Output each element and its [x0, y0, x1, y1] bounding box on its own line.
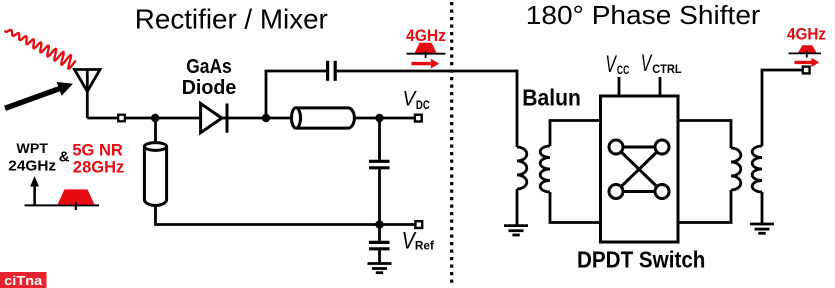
DPDT switch box U1: [601, 96, 679, 242]
input port: [118, 115, 125, 122]
svg-text:WPT: WPT: [16, 141, 48, 157]
wire antenna to input port: [87, 117, 118, 120]
svg-text:CTRL: CTRL: [652, 62, 681, 76]
balun1 secondary coil: [540, 146, 550, 192]
wire diode to node B: [227, 117, 292, 120]
svg-text:ciTna: ciTna: [4, 273, 43, 288]
wire node B up to RF rail: [265, 71, 268, 118]
svg-text:Rectifier / Mixer: Rectifier / Mixer: [135, 4, 328, 35]
antenna: [75, 70, 101, 119]
wire balun L to ground: [516, 189, 519, 226]
wire port to diode: [125, 117, 201, 120]
svg-text:Ref: Ref: [415, 238, 435, 252]
VDC port: [415, 115, 422, 122]
svg-text:V: V: [641, 50, 653, 77]
svg-text:DPDT Switch: DPDT Switch: [577, 247, 705, 273]
red arrow right: [795, 58, 820, 67]
svg-text:Balun: Balun: [522, 85, 581, 111]
svg-text:DC: DC: [416, 98, 430, 112]
wire box to balun2 top: [678, 121, 731, 149]
svg-text:V: V: [605, 51, 617, 78]
red arrow left: [412, 59, 440, 69]
black incident arrow: [5, 82, 73, 108]
svg-text:Diode: Diode: [182, 77, 237, 99]
wire C3 to ground: [378, 250, 381, 263]
balun2 secondary coil: [752, 146, 762, 192]
svg-text:GaAs: GaAs: [186, 56, 232, 78]
svg-text:180° Phase Shifter: 180° Phase Shifter: [526, 2, 761, 30]
wire balun1 sec top to box: [550, 121, 601, 147]
wire VDC node down: [378, 118, 381, 160]
series TL2 (horizontal cylinder): [292, 108, 355, 128]
svg-text:28GHz: 28GHz: [73, 159, 124, 177]
ground under balun1: [504, 226, 528, 235]
svg-text:4GHz: 4GHz: [406, 26, 446, 45]
citna watermark logo: [0, 272, 47, 288]
RF rail right of cap: [337, 70, 517, 73]
ground under C3: [368, 264, 392, 273]
balun1 primary coil: [517, 147, 527, 189]
wire VCC: [618, 77, 621, 96]
RF rail left of cap: [265, 70, 326, 73]
wire C2 to Vref rail: [378, 169, 381, 224]
wire box to balun2 bottom: [678, 190, 731, 223]
ground under balun2: [750, 224, 774, 233]
svg-text:&: &: [59, 149, 70, 166]
wire VCTRL: [659, 77, 662, 96]
DPDT contact circles: [609, 140, 669, 199]
red RF wave zigzag: [5, 30, 76, 69]
svg-text:CC: CC: [617, 63, 630, 77]
capacitor C3: [369, 242, 390, 248]
wire Vref rail to port: [380, 223, 416, 226]
spectrum icon left 4GHz: [407, 43, 446, 58]
node B junction: [262, 114, 270, 122]
node Vref junction: [375, 220, 383, 228]
series capacitor C1: [328, 61, 336, 81]
wire junction to stub: [154, 118, 157, 147]
svg-text:24GHz: 24GHz: [8, 158, 56, 175]
node stub junction: [151, 114, 159, 122]
wire balun2 sec top to output: [762, 70, 803, 146]
balun2 primary coil: [731, 148, 741, 190]
node VDC junction: [375, 114, 383, 122]
output port: [803, 67, 810, 74]
wire balun2 sec to ground: [761, 192, 764, 224]
GaAs diode D1: [201, 104, 227, 133]
svg-text:4GHz: 4GHz: [787, 26, 826, 44]
wire TL2 to VDC port: [354, 117, 415, 120]
DPDT cross lines: [616, 147, 662, 192]
svg-text:5G NR: 5G NR: [72, 141, 123, 159]
wire stub to Vref rail: [156, 205, 380, 225]
WPT spectrum icon: [25, 176, 100, 210]
spectrum icon right 4GHz: [789, 45, 822, 57]
capacitor C2: [369, 161, 390, 168]
Vref port: [415, 221, 422, 228]
wire Vref node down: [378, 225, 381, 241]
shunt stub TL1 (vertical cylinder): [144, 143, 166, 206]
wire balun1 sec bottom to box: [550, 192, 601, 223]
dotted divider: [450, 2, 453, 286]
wire RF rail to balun L: [516, 71, 517, 147]
